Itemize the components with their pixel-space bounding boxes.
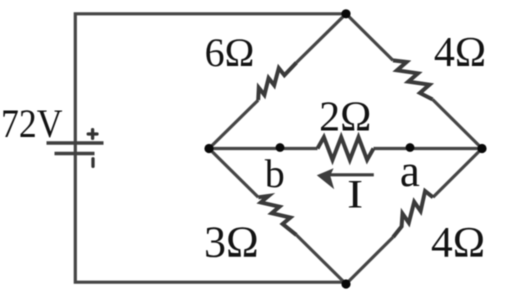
- svg-text:b: b: [265, 151, 285, 196]
- svg-text:72V: 72V: [1, 101, 63, 146]
- node L junction dot: [204, 144, 213, 153]
- wire from battery + terminal up and across to node T: [75, 14, 346, 144]
- svg-text:3Ω: 3Ω: [204, 218, 259, 267]
- node a junction dot: [406, 143, 415, 152]
- resistor 4-ohm zigzag (upper-right): [393, 60, 433, 99]
- node b junction dot: [276, 143, 285, 152]
- svg-text:4Ω: 4Ω: [431, 218, 485, 266]
- wire node B to resistor 4-ohm lower: [346, 237, 393, 284]
- node B junction dot: [341, 279, 350, 288]
- svg-text:a: a: [400, 146, 420, 196]
- wire resistor 3-ohm to node B: [296, 235, 346, 284]
- svg-text:I: I: [347, 172, 363, 217]
- wire resistor 2-ohm to node R via node a: [374, 147, 483, 150]
- wire node L to resistor 3-ohm: [209, 149, 258, 198]
- node T junction dot: [341, 9, 350, 18]
- wire node L to resistor 2-ohm via node b: [209, 147, 318, 150]
- wire node L to resistor 6-ohm: [209, 100, 258, 148]
- battery plus sign: [88, 130, 97, 139]
- resistor 6-ohm zigzag (upper-left): [258, 63, 296, 101]
- svg-text:6Ω: 6Ω: [205, 30, 255, 75]
- battery minus tick: [91, 159, 94, 167]
- wire from battery - terminal down and across to node B: [75, 143, 346, 282]
- node R junction dot: [477, 144, 486, 153]
- current I direction arrow (points left from a to b): [329, 173, 374, 176]
- wire resistor 4-ohm lower to node R: [433, 149, 482, 198]
- wire node T to resistor 4-ohm upper: [346, 14, 393, 61]
- resistor 4-ohm zigzag (lower-right): [393, 191, 433, 237]
- resistor 3-ohm zigzag (lower-left): [258, 196, 296, 235]
- svg-text:2Ω: 2Ω: [319, 94, 371, 140]
- wire resistor 6-ohm to node T: [296, 14, 346, 63]
- svg-text:4Ω: 4Ω: [434, 30, 486, 76]
- wire resistor 4-ohm upper to node R: [433, 99, 483, 148]
- resistor 2-ohm zigzag (middle): [318, 137, 374, 160]
- battery 72V plates (long + plate over short - plate): [47, 143, 104, 154]
